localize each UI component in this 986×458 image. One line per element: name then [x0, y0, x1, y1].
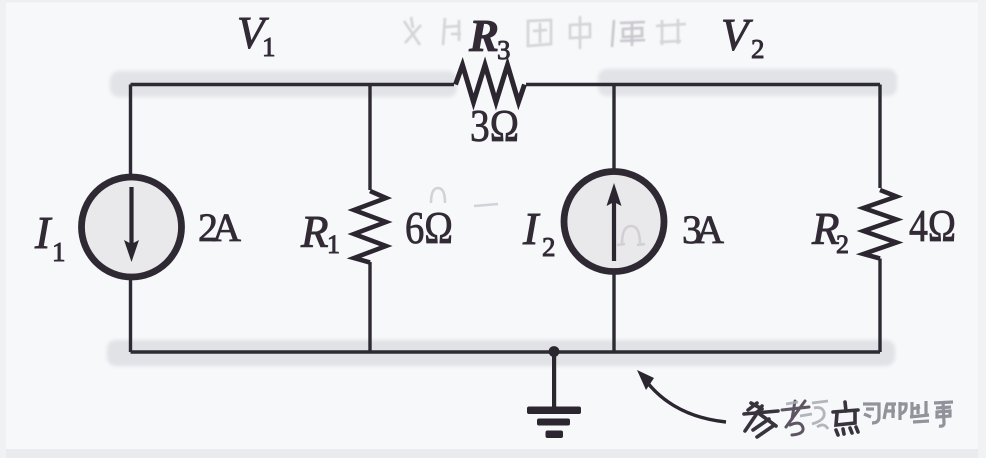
watermark 习那些事 (grey) — [863, 401, 953, 426]
svg-text:4Ω: 4Ω — [909, 200, 956, 251]
svg-text:1: 1 — [327, 230, 340, 259]
svg-text:I: I — [522, 203, 541, 254]
svg-text:R: R — [468, 11, 499, 61]
current source I1 — [82, 177, 182, 277]
svg-text:V: V — [721, 10, 753, 60]
wire I2 branch — [612, 85, 615, 353]
watermark faint header characters (grey) — [404, 16, 686, 49]
svg-text:1: 1 — [262, 32, 276, 62]
label R3 — [468, 11, 511, 65]
wire I1 left branch — [129, 85, 132, 353]
svg-text:2: 2 — [542, 232, 556, 262]
svg-text:3A: 3A — [682, 207, 724, 252]
svg-text:2: 2 — [751, 34, 765, 64]
svg-text:I: I — [34, 207, 53, 258]
ground junction node — [549, 346, 560, 357]
wire top-left segment — [131, 83, 455, 86]
watermark ghost near R1 (grey) — [431, 188, 498, 206]
label I2 — [522, 203, 556, 262]
wire bottom — [131, 350, 881, 354]
wire top-right segment — [526, 83, 880, 86]
watermark ghost strokes near 考 (grey) — [786, 401, 828, 429]
resistor R1 — [354, 191, 386, 263]
svg-text:6Ω: 6Ω — [405, 202, 453, 253]
svg-text:2A: 2A — [198, 205, 241, 250]
wire R1 branch — [368, 85, 371, 353]
annotation 参考点 (hand-written) — [744, 401, 858, 437]
current source I2 — [564, 172, 664, 272]
svg-text:R: R — [300, 207, 329, 257]
wire R2 branch — [878, 85, 881, 353]
svg-text:1: 1 — [52, 237, 66, 267]
reference-point arrow — [637, 370, 726, 422]
svg-text:3Ω: 3Ω — [470, 100, 519, 151]
label I1 — [34, 207, 66, 267]
svg-text:2: 2 — [836, 230, 849, 259]
label R2 — [811, 204, 849, 259]
ground — [527, 352, 581, 438]
node label V2 — [721, 10, 765, 64]
watermark ghost inside I2 (grey) — [617, 226, 645, 245]
svg-text:3: 3 — [497, 35, 511, 65]
label R1 — [300, 207, 340, 259]
resistor R3 — [456, 65, 525, 102]
node label V1 — [237, 8, 276, 62]
resistor R2 — [864, 190, 897, 259]
